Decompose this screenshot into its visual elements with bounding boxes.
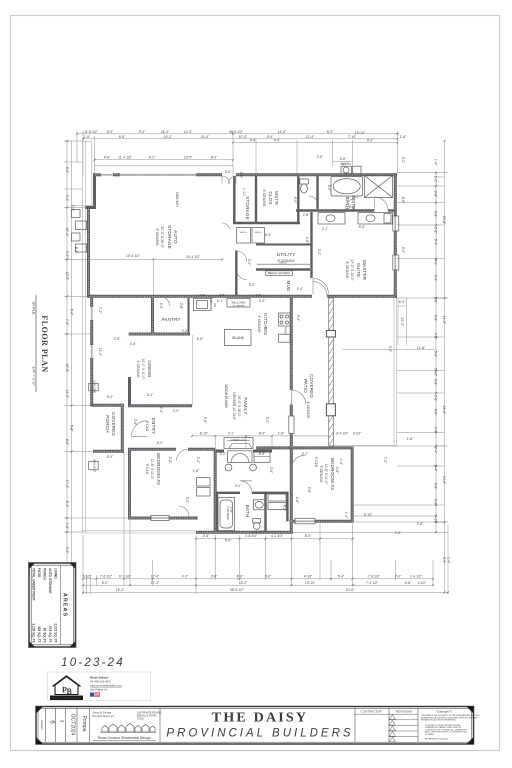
wall: utility south (256, 268, 310, 270)
svg-text:ENTRY: ENTRY (151, 418, 156, 435)
svg-text:MASTER: MASTER (362, 260, 367, 281)
svg-text:24'-6": 24'-6" (442, 406, 446, 415)
svg-text:6'-8": 6'-8" (259, 452, 266, 456)
svg-text:MSTR: MSTR (274, 191, 279, 205)
svg-text:7'-2": 7'-2" (383, 457, 387, 464)
wall: south band (kitchen/utility/master south) (154, 295, 312, 298)
bath2 tub (218, 498, 235, 531)
svg-text:8'-0": 8'-0" (102, 581, 109, 585)
roofline: garage apron top (91, 141, 93, 206)
svg-text:Ph: 480-292-4875: Ph: 480-292-4875 (90, 680, 111, 684)
door: bed3 (291, 455, 305, 469)
svg-text:1'-8": 1'-8" (193, 469, 200, 473)
svg-text:9'-2": 9'-2" (367, 138, 374, 142)
svg-text:17'-0" X 13'-0": 17'-0" X 13'-0" (350, 259, 354, 281)
svg-text:56'-9 1/2": 56'-9 1/2" (229, 130, 244, 134)
wall: storage east (255, 176, 257, 224)
svg-text:4'-0": 4'-0" (434, 499, 438, 506)
dim line: right chain a (435, 172, 437, 532)
svg-text:PATIO: PATIO (37, 568, 41, 578)
svg-text:9'-0": 9'-0" (267, 135, 274, 139)
svg-text:CAB: CAB (220, 294, 225, 297)
kitchen sink (197, 301, 208, 309)
svg-text:1'-4": 1'-4" (447, 557, 451, 564)
wall: bath2 east (264, 492, 266, 533)
wall: porch north (93, 404, 124, 407)
svg-text:AUTO: AUTO (173, 230, 178, 244)
dim ext: family chain verticals (215, 436, 331, 449)
wall: family/kitchen east (290, 296, 293, 390)
svg-text:24" PANTRY: 24" PANTRY (232, 305, 245, 308)
wall: utility/mud east (310, 212, 312, 278)
svg-text:9'-0": 9'-0" (401, 247, 405, 254)
svg-text:6'-2": 6'-2" (149, 155, 156, 159)
svg-text:1'-4 1/2": 1'-4 1/2" (410, 575, 423, 579)
svg-text:8'-10": 8'-10" (200, 431, 209, 435)
wall: patio screen band (329, 298, 334, 446)
svg-text:8'-6": 8'-6" (401, 197, 405, 204)
svg-text:RANGE: RANGE (284, 327, 287, 336)
svg-text:1/4" = 1'-0": 1/4" = 1'-0" (32, 366, 37, 386)
utility shelf line (257, 263, 310, 265)
svg-text:2'-0": 2'-0" (395, 575, 402, 579)
svg-text:SHEET: SHEET (40, 720, 44, 730)
svg-text:5'-0": 5'-0" (65, 167, 69, 174)
mstr bath tub (331, 177, 363, 197)
svg-text:10'-4 1/2": 10'-4 1/2" (126, 254, 141, 258)
svg-text:STORAGE: STORAGE (245, 196, 250, 220)
svg-text:10-23-24: 10-23-24 (61, 657, 125, 669)
mstr vanity left (318, 213, 345, 225)
svg-text:4'-6": 4'-6" (104, 155, 111, 159)
svg-text:12'-4": 12'-4" (306, 135, 315, 139)
svg-text:6 1/2": 6 1/2" (83, 575, 92, 579)
svg-text:4'-2": 4'-2" (259, 299, 266, 303)
wall: hall west (bed2 east) (214, 449, 217, 534)
dim line: family interior chain (192, 435, 331, 437)
roofline: patio south (333, 444, 397, 446)
svg-text:CONTRACTOR: CONTRACTOR (360, 710, 382, 714)
svg-text:5'-6": 5'-6" (307, 487, 311, 494)
water heater platform (341, 166, 352, 174)
svg-text:2'-2": 2'-2" (71, 205, 75, 212)
svg-text:3'-0": 3'-0" (225, 170, 232, 174)
svg-text:FIREPLACE: FIREPLACE (231, 438, 246, 442)
svg-text:SHLVS: SHLVS (279, 261, 287, 264)
dim line: bottom chain 2 (83, 584, 433, 586)
svg-text:1'-11": 1'-11" (242, 188, 246, 197)
dim line: bath small chain (196, 538, 354, 540)
svg-text:3'-0": 3'-0" (235, 484, 242, 488)
svg-text:6'-2": 6'-2" (265, 417, 269, 424)
wall: entry south (bed2 north) (128, 448, 176, 451)
window box bed2 south (151, 516, 169, 521)
wall: bed2 west (128, 449, 131, 519)
svg-text:6'-6": 6'-6" (434, 409, 438, 416)
door: pantry (160, 296, 170, 306)
wall: dining west exterior (90, 296, 93, 307)
logo box (48, 672, 151, 701)
svg-text:3'-8": 3'-8" (434, 211, 438, 218)
svg-text:5'-0": 5'-0" (327, 185, 331, 192)
dim ext: top verticals (77, 131, 398, 176)
svg-text:2'-6": 2'-6" (229, 507, 233, 514)
svg-text:4'-8": 4'-8" (335, 467, 339, 474)
svg-text:3'-8": 3'-8" (179, 303, 183, 310)
svg-text:4'-0": 4'-0" (250, 138, 257, 142)
dim line: bottom chain 3 (83, 592, 448, 594)
svg-text:9' CEILING: 9' CEILING (136, 360, 140, 377)
svg-text:www.provincialbuilders.com: www.provincialbuilders.com (90, 684, 122, 688)
window boxes master east (393, 216, 399, 231)
door: hall closet 1 (236, 251, 247, 262)
wall: porch east (121, 404, 124, 453)
skyline graphic (100, 724, 156, 733)
svg-text:2'-0": 2'-0" (182, 329, 189, 333)
svg-text:5'-4": 5'-4" (434, 239, 438, 246)
svg-text:12'-0": 12'-0" (65, 272, 69, 281)
svg-text:Steve B. Pompa: Steve B. Pompa (93, 711, 112, 715)
svg-text:LIVING: LIVING (54, 568, 58, 579)
svg-text:4'-0": 4'-0" (274, 138, 281, 142)
dim ext: garage interior vertical (152, 259, 154, 296)
svg-text:78102: 78102 (137, 718, 144, 721)
svg-text:3'-1": 3'-1" (147, 393, 154, 397)
svg-text:9'-8": 9'-8" (203, 417, 207, 424)
svg-text:SCALE: SCALE (32, 301, 37, 314)
dim line: master right small (398, 298, 407, 345)
dividers (46, 708, 418, 742)
svg-text:96 SQ. FT.: 96 SQ. FT. (43, 628, 47, 643)
door: front entry (132, 421, 148, 437)
svg-text:2'-8": 2'-8" (211, 575, 218, 579)
svg-text:58'-9 1/2": 58'-9 1/2" (230, 588, 245, 592)
svg-text:AREAS: AREAS (62, 593, 68, 617)
svg-text:14'-2": 14'-2" (442, 316, 446, 325)
svg-text:3'-6": 3'-6" (269, 467, 273, 474)
svg-text:5'-6": 5'-6" (349, 205, 356, 209)
outer box (36, 707, 474, 745)
svg-text:11'-6" X 11'-0": 11'-6" X 11'-0" (324, 464, 328, 486)
corner wedges (36, 707, 474, 745)
svg-text:2'-8": 2'-8" (303, 213, 310, 217)
svg-text:6'-0": 6'-0" (399, 300, 406, 304)
svg-text:5'-6": 5'-6" (434, 351, 438, 358)
svg-text:4'-4": 4'-4" (297, 287, 304, 291)
svg-text:8'-2": 8'-2" (327, 130, 334, 134)
svg-text:COVERED: COVERED (309, 374, 314, 399)
svg-text:4'-1 3/4": 4'-1 3/4" (271, 534, 284, 538)
svg-text:W.H.: W.H. (341, 162, 348, 166)
svg-text:3'-4": 3'-4" (65, 195, 69, 202)
closet shelves by storage (237, 228, 251, 244)
svg-text:3'-6": 3'-6" (340, 157, 347, 161)
svg-text:4'-2": 4'-2" (434, 333, 438, 340)
svg-text:2'-9": 2'-9" (209, 297, 213, 304)
social icons (90, 693, 94, 697)
wall: clos/storage south (233, 222, 300, 224)
svg-text:1'-6": 1'-6" (84, 135, 91, 139)
svg-text:B: B (67, 687, 73, 696)
svg-text:5'-0": 5'-0" (70, 309, 74, 316)
window seat west upper (89, 383, 99, 391)
svg-text:UTILITY: UTILITY (277, 252, 296, 257)
areas table outer box (29, 563, 76, 647)
mstr toilet (300, 179, 309, 184)
svg-text:2'-2": 2'-2" (302, 452, 309, 456)
svg-text:24'-8": 24'-8" (65, 364, 69, 373)
svg-text:6'-0": 6'-0" (293, 197, 297, 204)
svg-text:2'-2": 2'-2" (434, 176, 438, 183)
svg-text:SUITE: SUITE (356, 263, 361, 278)
svg-text:3'-10": 3'-10" (434, 368, 438, 377)
svg-text:CLOS: CLOS (268, 191, 273, 204)
svg-text:678 SQ. FT.: 678 SQ. FT. (48, 626, 52, 643)
bath2 toilet (253, 519, 261, 523)
svg-text:5'-2": 5'-2" (247, 259, 251, 266)
door: mstr bath entry (375, 197, 389, 211)
door: hall closet 2 (236, 269, 247, 280)
svg-text:2'-2": 2'-2" (220, 452, 227, 456)
svg-text:PORCH: PORCH (105, 415, 110, 433)
svg-text:12'-0": 12'-0" (184, 130, 193, 134)
svg-text:AUTO STORAGE: AUTO STORAGE (48, 568, 52, 594)
dim line: top outer (77, 133, 398, 135)
door: vanity hall (345, 198, 358, 211)
svg-text:1'-6": 1'-6" (395, 531, 402, 535)
svg-text:2'-8": 2'-8" (434, 191, 438, 198)
svg-text:5'-0": 5'-0" (107, 395, 114, 399)
patio screen wall (326, 298, 335, 446)
svg-text:3'-8": 3'-8" (434, 379, 438, 386)
door: bed2 (177, 449, 189, 461)
svg-text:6'-5": 6'-5" (265, 233, 272, 237)
svg-text:ANYWHERE 817-408-4457: ANYWHERE 817-408-4457 (425, 738, 448, 741)
door: bath2 (240, 481, 252, 493)
svg-text:20'-8": 20'-8" (442, 216, 446, 225)
wall: bed3 west (290, 449, 293, 534)
svg-text:2'-4": 2'-4" (434, 447, 438, 454)
svg-text:REVISIONS: REVISIONS (396, 710, 412, 714)
thin divider dining/family (192, 335, 194, 406)
roofline: west double (82, 141, 84, 533)
door arcs (132, 176, 389, 517)
svg-text:2'-3": 2'-3" (434, 227, 438, 234)
svg-text:26'-4": 26'-4" (161, 130, 170, 134)
svg-text:6'-6": 6'-6" (434, 483, 438, 490)
svg-text:4 1/2": 4 1/2" (418, 581, 427, 585)
svg-text:SHLVS: SHLVS (254, 232, 262, 234)
mstr vanity right (358, 213, 393, 225)
svg-text:318 SQ. FT.: 318 SQ. FT. (37, 626, 41, 643)
dim line: garage head 2 (95, 164, 234, 166)
wall: bath west (toilet nook) (316, 176, 318, 209)
wall: vanity/master north (296, 209, 374, 211)
svg-text:1'-10": 1'-10" (434, 515, 438, 524)
wall: porch south (93, 450, 124, 453)
wall: master east exterior w/ window gaps (394, 173, 397, 216)
svg-text:4'-0": 4'-0" (159, 407, 163, 414)
underline (35, 295, 37, 392)
svg-text:5'-0": 5'-0" (296, 315, 300, 322)
svg-text:5'-8": 5'-8" (197, 337, 204, 341)
svg-text:11'-6" X 11'-0": 11'-6" X 11'-0" (150, 459, 154, 481)
wall: garage west upper (93, 173, 96, 207)
svg-text:PERMISSION. ALL RIGHTS RESERV: PERMISSION. ALL RIGHTS RESERVED. (421, 719, 457, 722)
svg-text:16'-4 1/2": 16'-4 1/2" (186, 255, 201, 259)
wall: garage west lower (87, 208, 90, 298)
svg-text:5'-8": 5'-8" (70, 425, 74, 432)
wall: hall closets west (235, 251, 237, 297)
svg-text:2'-0": 2'-0" (239, 172, 243, 179)
svg-text:5'-0": 5'-0" (359, 225, 366, 229)
svg-text:4'-8 3/4": 4'-8 3/4" (245, 534, 258, 538)
svg-text:6'-8": 6'-8" (119, 135, 126, 139)
bed2 closet shelves (197, 478, 211, 487)
svg-text:9' CLG: 9' CLG (145, 421, 149, 432)
svg-text:PROVINCIAL BUILDERS: PROVINCIAL BUILDERS (166, 728, 353, 740)
svg-text:3'-0": 3'-0" (173, 409, 180, 413)
svg-text:PATIO: PATIO (303, 379, 308, 393)
dim line: right chain b (444, 141, 446, 593)
svg-text:1'-4": 1'-4" (344, 512, 348, 519)
svg-text:CAB: CAB (256, 294, 261, 297)
svg-text:9' CLG: 9' CLG (145, 464, 149, 475)
kitchen range (279, 313, 291, 326)
wall hatch texture overlay (89, 175, 396, 533)
svg-text:9' CEILING: 9' CEILING (257, 315, 261, 332)
svg-text:WOOD FLOOR: WOOD FLOOR (224, 384, 228, 408)
svg-text:11'-0": 11'-0" (98, 348, 102, 357)
svg-text:8'-0": 8'-0" (237, 575, 244, 579)
svg-text:8'-6": 8'-6" (65, 439, 69, 446)
svg-text:15'-10": 15'-10" (355, 131, 366, 135)
wall: pantry east (188, 298, 190, 333)
wall: bath2 west (216, 492, 218, 533)
dim ticks top (66, 133, 449, 594)
svg-text:9' CEILING: 9' CEILING (319, 465, 323, 482)
wall: mstr clos east (297, 176, 299, 224)
svg-text:7'-10": 7'-10" (348, 135, 357, 139)
svg-text:32'-2" X 26'-0": 32'-2" X 26'-0" (160, 226, 164, 248)
dim line: wh head (333, 160, 353, 162)
svg-text:3'-4 1/4": 3'-4 1/4" (336, 431, 349, 435)
logo caption (50, 696, 83, 701)
svg-text:7'-6 1/2": 7'-6 1/2" (100, 575, 113, 579)
fireplace (224, 438, 253, 449)
svg-text:BEDROOM #3: BEDROOM #3 (330, 458, 335, 490)
svg-text:SHLVS: SHLVS (239, 232, 247, 234)
wall: bed2 south w/ window gap (128, 517, 151, 520)
svg-text:14'-6": 14'-6" (278, 130, 287, 134)
svg-text:1'-8": 1'-8" (407, 437, 414, 441)
door: master to patio (south band) (313, 282, 328, 297)
svg-text:OF SAME.: OF SAME. (425, 733, 435, 736)
island (225, 330, 252, 346)
svg-text:2'-6": 2'-6" (203, 534, 210, 538)
svg-text:ISLAND: ISLAND (232, 336, 245, 340)
dim ext: right horizontals (293, 173, 448, 533)
svg-text:Micah Bullard: Micah Bullard (90, 676, 109, 680)
door: mud to master (313, 279, 329, 295)
svg-text:GAS W.H.: GAS W.H. (175, 192, 179, 208)
svg-text:OCT2024: OCT2024 (70, 714, 76, 736)
dim line: patio right link (343, 348, 437, 350)
window box family east (patio) (289, 416, 294, 434)
wall: pantry west (151, 296, 154, 334)
svg-text:11'-2": 11'-2" (65, 390, 69, 399)
svg-text:24'-0": 24'-0" (65, 228, 69, 237)
svg-text:10'-2": 10'-2" (164, 135, 173, 139)
svg-text:STORAGE: STORAGE (167, 225, 172, 249)
svg-text:6'-0": 6'-0" (157, 441, 164, 445)
wall: storage west (233, 176, 235, 224)
svg-text:WDW SEAT: WDW SEAT (93, 381, 96, 395)
door: garage double door (222, 176, 236, 184)
wall: linen east (286, 492, 288, 522)
door: mstr toilet (309, 196, 318, 205)
svg-text:4'-10": 4'-10" (304, 575, 313, 579)
svg-text:7'-4 1/2": 7'-4 1/2" (366, 581, 379, 585)
svg-text:18'-2": 18'-2" (239, 581, 248, 585)
svg-text:6'-4": 6'-4" (434, 275, 438, 282)
svg-text:3'-2": 3'-2" (317, 249, 321, 256)
svg-text:17'-4": 17'-4" (151, 581, 160, 585)
svg-text:WALL OVEN: WALL OVEN (232, 302, 246, 305)
door: family to patio (291, 390, 306, 405)
kitchen wall oven (227, 299, 250, 308)
svg-text:3'-0": 3'-0" (434, 259, 438, 266)
svg-text:13'-0": 13'-0" (184, 155, 193, 159)
svg-text:1'-8": 1'-8" (400, 135, 407, 139)
svg-text:16'-2": 16'-2" (116, 588, 125, 592)
svg-text:8'-0": 8'-0" (305, 534, 312, 538)
svg-text:10'-0": 10'-0" (442, 476, 446, 485)
svg-text:9' CLG: 9' CLG (314, 457, 318, 468)
svg-text:19'-0" X 16'-0": 19'-0" X 16'-0" (237, 395, 241, 417)
svg-text:PORCH: PORCH (43, 568, 47, 580)
svg-text:6'-7 1/2": 6'-7 1/2" (119, 575, 132, 579)
dim line: top second (83, 138, 398, 140)
svg-text:20'-4": 20'-4" (201, 135, 210, 139)
svg-text:4'-2": 4'-2" (182, 575, 189, 579)
svg-text:5'-8": 5'-8" (405, 581, 412, 585)
door: bed2 inner (179, 506, 190, 517)
svg-text:9'-2": 9'-2" (65, 251, 69, 258)
svg-text:17'-0": 17'-0" (151, 575, 160, 579)
svg-text:5'-2": 5'-2" (401, 157, 405, 164)
svg-text:2'-8": 2'-8" (295, 497, 299, 504)
svg-text:7'-8 1/2": 7'-8 1/2" (368, 575, 381, 579)
svg-text:5'-0": 5'-0" (225, 539, 232, 543)
patio post box lower (326, 404, 335, 416)
wall: garage south (87, 295, 154, 298)
svg-text:Copyright ©: Copyright © (436, 710, 453, 714)
svg-text:DINING: DINING (147, 360, 152, 378)
wall: bed3 south w/ window gap (290, 520, 296, 523)
svg-text:3'-2": 3'-2" (282, 505, 286, 512)
svg-text:7'-2": 7'-2" (98, 307, 102, 314)
wall: dining north (129, 333, 191, 336)
svg-text:BATH: BATH (245, 505, 250, 518)
svg-text:6'-10": 6'-10" (364, 513, 373, 517)
svg-text:COVERED: COVERED (111, 412, 116, 437)
wall: west jog (85, 206, 96, 209)
svg-text:FAMILY: FAMILY (243, 397, 248, 414)
kitchen cab south (279, 334, 291, 342)
svg-text:4'-6": 4'-6" (130, 342, 137, 346)
svg-text:1'-6": 1'-6" (65, 523, 69, 530)
